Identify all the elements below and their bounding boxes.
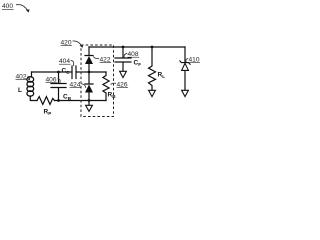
svg-text:420: 420 xyxy=(61,39,72,46)
svg-text:410: 410 xyxy=(189,56,200,63)
label 426 xyxy=(117,81,129,88)
leader 426 xyxy=(111,83,116,84)
label 408 xyxy=(128,51,140,58)
label 422 xyxy=(100,56,112,63)
diode D424 xyxy=(85,72,93,105)
svg-text:422: 422 xyxy=(100,56,111,63)
diode D410 open triangle xyxy=(182,63,189,70)
resistor RL xyxy=(149,47,156,90)
resistor RB xyxy=(103,72,109,101)
svg-text:406: 406 xyxy=(46,76,57,83)
diode D422 triangle xyxy=(85,56,93,64)
wire bottom horizontal xyxy=(55,100,107,102)
leader 420 xyxy=(73,41,82,46)
leader 424 xyxy=(82,84,86,88)
arrowhead 420 xyxy=(80,44,84,48)
svg-text:404: 404 xyxy=(59,58,70,65)
resistor RP xyxy=(37,97,55,105)
label 400 xyxy=(2,3,14,10)
leader 410 xyxy=(186,58,188,62)
junction node dots xyxy=(57,46,153,102)
diode D410 branch xyxy=(184,47,186,90)
leader 406 xyxy=(58,79,61,84)
diode D422 xyxy=(85,47,93,72)
ground arrow under D424 xyxy=(86,105,93,111)
dashed box 420 xyxy=(81,45,114,117)
ground arrow under RL xyxy=(149,90,156,96)
leader lines xyxy=(16,5,188,88)
label 410 xyxy=(189,56,201,63)
inductor L coil xyxy=(27,77,34,82)
diode D424 triangle xyxy=(85,85,93,93)
capacitor CF xyxy=(115,47,131,71)
svg-text:408: 408 xyxy=(128,51,139,58)
inductor L402 leads xyxy=(30,72,37,101)
wire top horizontal xyxy=(89,46,185,48)
svg-text:426: 426 xyxy=(117,81,128,88)
leader 402 xyxy=(28,76,30,80)
leader 408 xyxy=(124,53,127,57)
capacitor CC plates xyxy=(72,66,76,79)
svg-text:400: 400 xyxy=(2,3,13,10)
svg-text:L: L xyxy=(18,87,22,94)
diode D410 zener bar xyxy=(180,61,190,64)
label 424 xyxy=(70,81,82,88)
svg-text:424: 424 xyxy=(70,81,81,88)
ground arrow under D410 xyxy=(182,90,189,96)
leader 422 xyxy=(93,56,99,58)
label 406 xyxy=(46,76,58,83)
arrowhead 402 xyxy=(28,78,31,80)
wire left tank top xyxy=(32,71,73,73)
label 402 xyxy=(16,73,28,80)
label 420 xyxy=(61,39,73,46)
capacitor CB plates xyxy=(51,72,66,101)
wire mid coupling xyxy=(76,71,106,73)
label 404 xyxy=(59,58,71,65)
leader 400 xyxy=(16,5,28,12)
leader 404 xyxy=(71,60,74,66)
ground arrow under CF xyxy=(120,71,127,77)
arrowhead 400 xyxy=(26,9,30,12)
svg-text:402: 402 xyxy=(16,73,27,80)
